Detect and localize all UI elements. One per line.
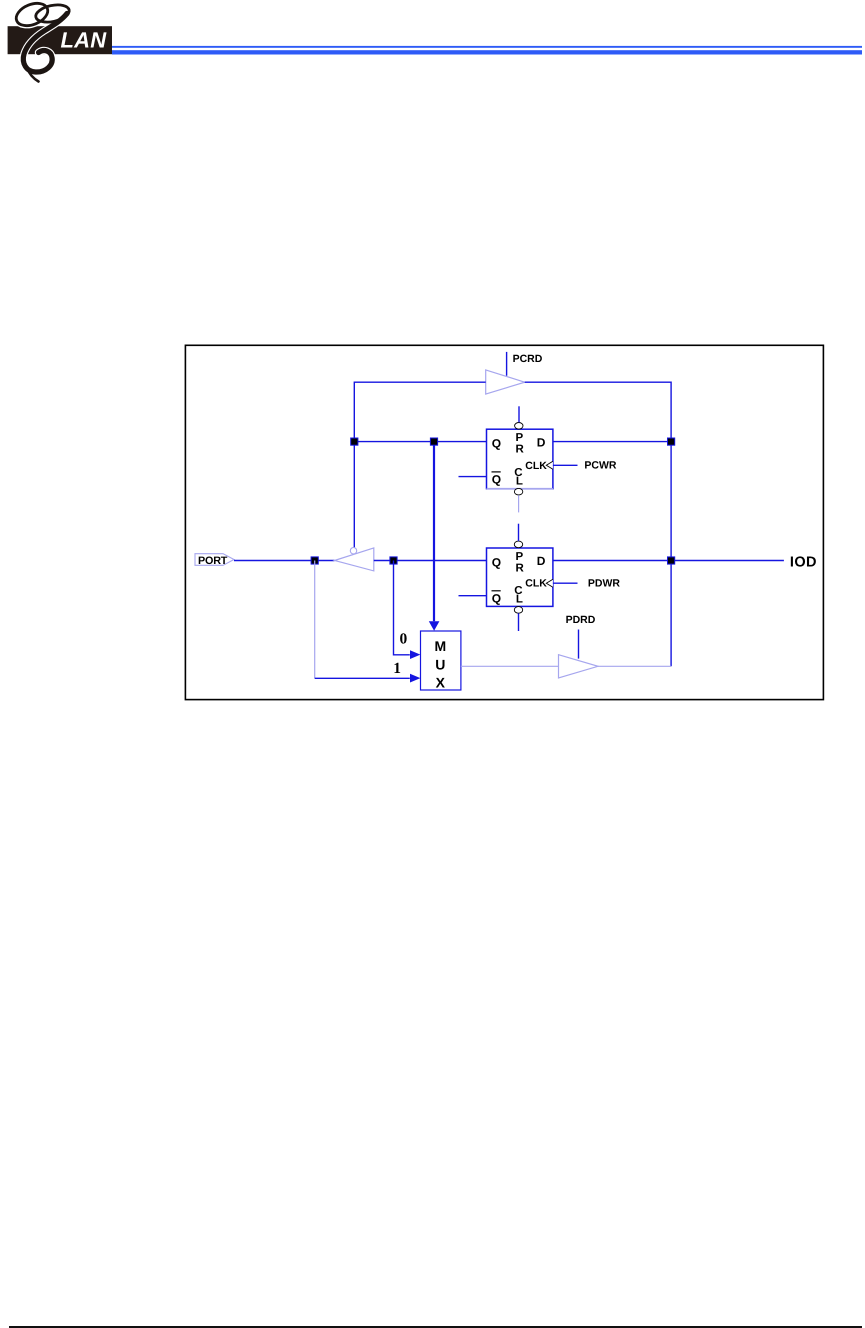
U2 preset bubble xyxy=(515,423,523,430)
wire: to MUX input 1 xyxy=(315,674,421,683)
svg-text:Q: Q xyxy=(492,473,501,487)
label PCRD xyxy=(513,353,543,365)
junction node A1 xyxy=(350,438,358,446)
svg-text:Q: Q xyxy=(492,437,501,451)
wire: PCRD enable stub xyxy=(506,352,508,376)
label PORT xyxy=(195,554,234,567)
footer rule xyxy=(9,1326,862,1328)
wire: D2 row to IOD xyxy=(553,560,784,562)
wire: U1 output to right bus vertical xyxy=(525,382,671,666)
svg-text:P: P xyxy=(516,551,524,563)
svg-text:D: D xyxy=(537,435,546,449)
svg-text:0: 0 xyxy=(400,631,408,648)
wire: U5 output to right bus (light) xyxy=(598,665,671,667)
wire: U3 CLK to PDWR xyxy=(553,582,578,584)
wire: U1 input from left vertical xyxy=(354,382,485,439)
U4 enable bubble xyxy=(350,548,356,554)
wire: Q1 row (node A) xyxy=(354,441,486,443)
header rule thin xyxy=(112,46,862,48)
svg-text:PCRD: PCRD xyxy=(513,353,543,365)
U3 clock wedge xyxy=(546,579,553,587)
U3 clear bubble xyxy=(514,607,522,614)
ELAN logo LAN text xyxy=(61,28,108,53)
junction node B3 (right bus mid) xyxy=(667,556,675,564)
junction node A3 (right bus top) xyxy=(667,438,675,446)
wire: node B2 to U3 Q xyxy=(394,560,487,562)
wire: PDRD enable stub xyxy=(578,630,580,659)
wire: U2 preset stub xyxy=(518,406,520,422)
wire: vertical from node A to U4 enable xyxy=(353,442,355,548)
svg-text:IOD: IOD xyxy=(790,554,817,570)
wire: U4 base to node B2 xyxy=(374,560,394,562)
svg-text:R: R xyxy=(516,444,525,456)
ELAN logo black box xyxy=(8,26,112,54)
U3 preset bubble xyxy=(514,541,522,548)
svg-text:CLK: CLK xyxy=(525,460,547,472)
label PCWR xyxy=(584,460,616,472)
label PDWR xyxy=(588,578,620,590)
svg-text:1: 1 xyxy=(393,660,401,677)
schematic frame xyxy=(185,345,823,699)
junction node B1 xyxy=(311,556,319,564)
svg-text:CLK: CLK xyxy=(525,578,547,590)
flip-flop U2 (PCR latch) xyxy=(487,429,553,489)
label PDRD xyxy=(566,614,596,626)
wire: MUX output to U5 (light) xyxy=(461,665,559,667)
wire: PORT to node B1 xyxy=(234,560,315,562)
svg-text:PORT: PORT xyxy=(198,555,228,567)
MUX U6 xyxy=(421,631,461,690)
svg-text:PCWR: PCWR xyxy=(584,460,616,472)
svg-text:M: M xyxy=(434,638,446,654)
junction node B2 xyxy=(389,556,397,564)
svg-text:Q: Q xyxy=(492,556,501,570)
ELAN logo script E xyxy=(13,0,71,82)
U2 clock wedge xyxy=(546,461,553,469)
svg-text:LAN: LAN xyxy=(61,28,108,53)
flip-flop U3 (PDR latch) xyxy=(487,548,553,606)
wire: U3 Qbar stub xyxy=(459,595,487,597)
U2 clear bubble xyxy=(514,488,522,495)
tri-state buffer U5 (PDRD read buffer) xyxy=(559,655,599,678)
wire: D1 row to right bus xyxy=(553,441,671,443)
junction node A2 xyxy=(430,438,438,446)
wire: node B1 to U4 tip xyxy=(315,560,335,562)
svg-text:D: D xyxy=(537,554,546,568)
svg-text:PDRD: PDRD xyxy=(566,614,596,626)
svg-text:L: L xyxy=(516,476,523,488)
wire: U2 CLK to PCWR xyxy=(553,464,578,466)
wire: node B1 down (light) xyxy=(314,561,316,679)
tri-state buffer U1 (PCRD read buffer) xyxy=(486,370,525,394)
header rule thick xyxy=(112,50,862,54)
label IOD xyxy=(790,554,817,570)
label 0 xyxy=(400,631,408,648)
output buffer U4 (port driver, points left) xyxy=(335,548,374,571)
wire: node B2 down to MUX input 0 xyxy=(394,561,421,660)
wire: thick select line to MUX xyxy=(429,442,440,631)
label 1 xyxy=(393,660,401,677)
svg-text:P: P xyxy=(516,432,524,444)
svg-text:PDWR: PDWR xyxy=(588,578,620,590)
svg-text:L: L xyxy=(516,594,523,606)
wire: U2 Qbar stub xyxy=(459,476,487,478)
wire: U3 preset stub xyxy=(518,524,520,541)
wire: U3 clear stub xyxy=(518,613,520,631)
wire: U2 clear stub xyxy=(518,495,520,512)
svg-text:R: R xyxy=(516,562,525,574)
svg-text:X: X xyxy=(436,674,446,690)
svg-text:U: U xyxy=(435,657,445,673)
svg-text:Q: Q xyxy=(492,592,501,606)
